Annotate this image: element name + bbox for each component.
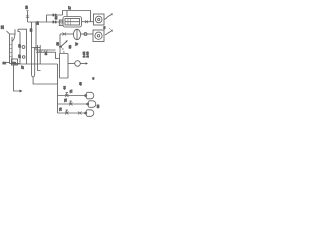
svg-text:26: 26: [24, 5, 28, 9]
svg-text:246: 246: [86, 51, 90, 57]
tiny marks above V2: [62, 48, 65, 52]
cylinder B2: [88, 101, 96, 108]
wire: upper branch line y21.5: [28, 21, 63, 23]
svg-text:W: W: [75, 43, 79, 46]
column top and neck: [10, 29, 21, 34]
trap tube V3: [32, 48, 35, 78]
pump oval P1: [73, 29, 80, 39]
motor box M1: [94, 14, 105, 25]
wire: inlet vertical line top-left: [27, 11, 29, 23]
inner funnel curve: [12, 34, 15, 42]
pump line y33.5: [60, 33, 74, 35]
wire: vertical x31: [32, 22, 37, 48]
vessel V2: [60, 54, 69, 79]
motor box M2: [93, 30, 104, 42]
drain line with arrow elbow: [14, 65, 20, 91]
svg-text:23: 23: [56, 42, 60, 46]
svg-text:73: 73: [59, 107, 63, 111]
svg-text:72: 72: [64, 98, 68, 102]
svg-text:30: 30: [29, 28, 33, 32]
vent squiggle M2: [105, 31, 112, 35]
canister inner line: [65, 21, 80, 23]
bottom run 2: [58, 103, 89, 105]
valve bowtie: [63, 33, 67, 36]
wire pump to M2: [81, 33, 93, 35]
canister inner ticks: [67, 19, 69, 26]
column K1 left wall: [9, 34, 11, 64]
wire: vertical x35.5: [35, 22, 37, 50]
svg-text:54: 54: [44, 51, 48, 55]
cylinder B3: [86, 110, 94, 117]
valve dots on y14.5: [53, 14, 55, 17]
svg-text:38: 38: [96, 104, 100, 108]
svg-text:17: 17: [68, 6, 72, 10]
svg-text:21: 21: [54, 16, 58, 20]
inlet top tick: [26, 10, 28, 12]
column inner wall: [11, 37, 13, 64]
dome outlet pipe: [18, 29, 27, 64]
cylinder B1: [86, 92, 94, 99]
wire bundle to vessel V2: [56, 52, 60, 58]
column bottom: [10, 63, 21, 65]
svg-text:5: 5: [93, 77, 95, 81]
heat exchanger bundle: [36, 49, 56, 51]
wire left end of pump line down: [59, 34, 61, 54]
svg-text:44: 44: [63, 86, 67, 90]
valve on canister outlet: [85, 20, 88, 23]
pipe into y63.5 header: [39, 45, 41, 64]
column right wall: [19, 32, 21, 64]
canister U3 outer: [63, 17, 82, 28]
wire: riser to top run: [63, 11, 91, 23]
vent squiggle M1: [104, 15, 112, 20]
svg-text:27: 27: [21, 65, 25, 69]
wire: drop into canister: [66, 11, 68, 17]
svg-text:53: 53: [68, 45, 72, 49]
bottoms outlet line right: [14, 63, 58, 65]
svg-text:25: 25: [18, 54, 22, 58]
diagonal vent arrow: [62, 42, 67, 47]
svg-text:12: 12: [3, 61, 7, 65]
wire: branch up x46: [47, 15, 63, 22]
pipe beside V3: [38, 45, 41, 71]
svg-text:71: 71: [69, 89, 73, 93]
label 52: [109, 28, 111, 30]
valve dots on y21.5: [53, 21, 55, 24]
hatched block left of canister: [59, 20, 63, 26]
V3 drain: [33, 77, 57, 84]
svg-text:22: 22: [1, 25, 5, 29]
bottom box 16: [12, 59, 18, 65]
svg-text:26: 26: [18, 44, 22, 48]
bottom run 1: [58, 95, 87, 97]
valve V26 on inlet: [26, 16, 29, 18]
bottom run 3: [58, 112, 87, 114]
svg-text:5: 5: [104, 26, 106, 30]
canister U3 inner: [65, 19, 80, 26]
wire: canister to motor box: [82, 21, 94, 23]
header ties: [35, 47, 41, 49]
column internal rungs: [10, 45, 13, 57]
svg-text:46: 46: [79, 82, 83, 86]
outflow circle and arrow: [68, 63, 75, 65]
main down pipe: [57, 64, 59, 113]
